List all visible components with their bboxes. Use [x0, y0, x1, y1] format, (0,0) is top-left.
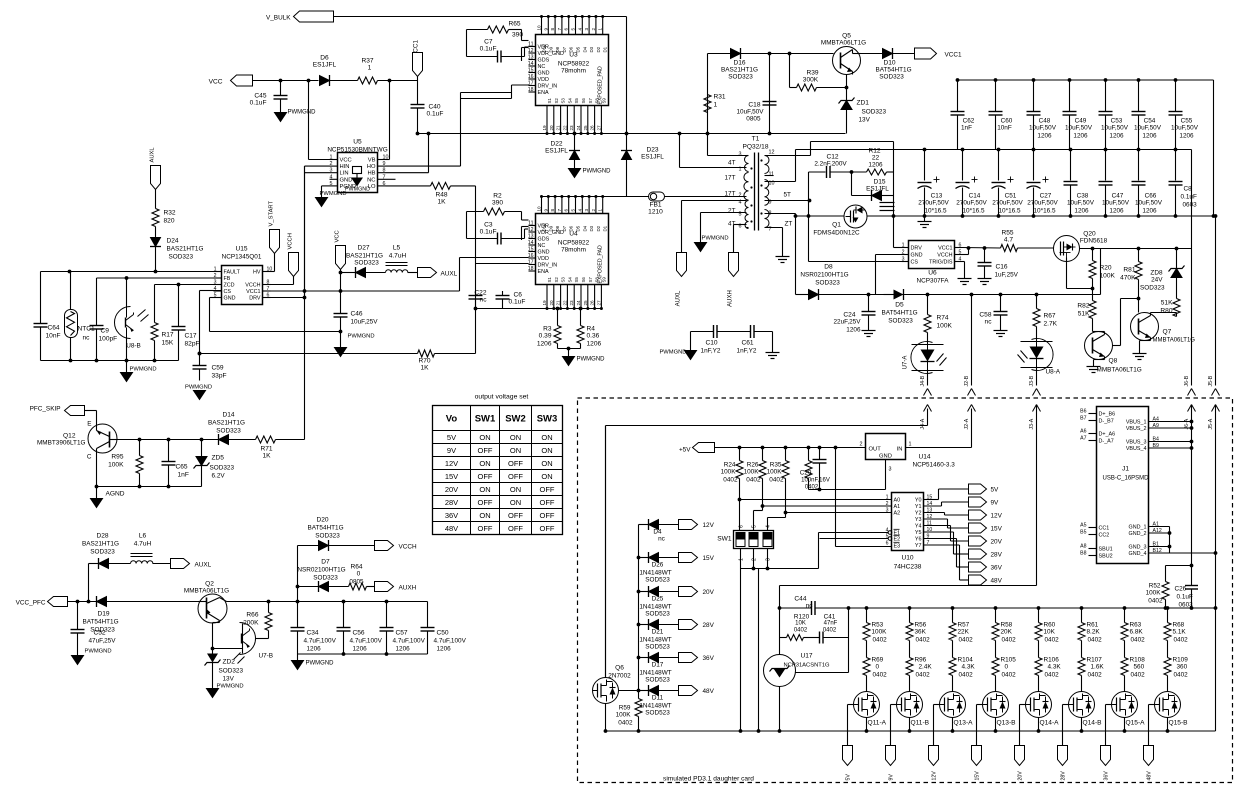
svg-text:0402: 0402 — [794, 628, 808, 634]
svg-text:20V: 20V — [703, 589, 715, 596]
svg-text:1N4148WT: 1N4148WT — [639, 637, 671, 644]
svg-text:Q7: Q7 — [1163, 329, 1172, 336]
svg-text:10*16.5: 10*16.5 — [924, 208, 946, 215]
svg-text:D+_B6: D+_B6 — [1099, 412, 1116, 418]
svg-text:12V: 12V — [932, 771, 938, 781]
svg-text:2: 2 — [591, 28, 596, 31]
svg-text:1206: 1206 — [437, 646, 452, 653]
svg-text:1nF: 1nF — [961, 125, 972, 132]
svg-text:GND: GND — [911, 253, 923, 259]
svg-text:Q11-B: Q11-B — [911, 720, 930, 727]
svg-text:J3-A: J3-A — [1029, 418, 1035, 429]
svg-text:CS: CS — [224, 289, 232, 295]
svg-text:D25: D25 — [652, 596, 664, 603]
svg-text:48V: 48V — [445, 524, 458, 533]
svg-text:nc: nc — [658, 536, 666, 543]
svg-text:100K: 100K — [616, 712, 632, 719]
svg-text:HO: HO — [367, 164, 376, 170]
svg-text:3: 3 — [766, 558, 772, 561]
svg-text:5.1K: 5.1K — [1173, 629, 1187, 636]
svg-text:VCC: VCC — [209, 79, 223, 86]
svg-text:0: 0 — [357, 571, 361, 578]
svg-text:D19: D19 — [97, 611, 109, 618]
svg-text:Y3: Y3 — [915, 517, 922, 523]
svg-text:13: 13 — [528, 55, 534, 61]
svg-text:VCCH: VCCH — [288, 233, 294, 249]
svg-text:ES1JFL: ES1JFL — [313, 62, 337, 69]
svg-text:SOD323: SOD323 — [815, 280, 840, 287]
svg-text:13V: 13V — [859, 117, 871, 124]
svg-text:1206: 1206 — [1074, 208, 1089, 215]
svg-text:D24: D24 — [167, 238, 179, 245]
svg-text:10: 10 — [537, 25, 542, 31]
svg-text:nc: nc — [806, 603, 814, 610]
svg-text:PWMGND: PWMGND — [288, 110, 317, 116]
svg-text:R4: R4 — [587, 326, 596, 333]
svg-text:C34: C34 — [307, 630, 319, 637]
svg-text:Q20: Q20 — [1083, 231, 1096, 238]
svg-text:A7: A7 — [1080, 436, 1086, 442]
svg-text:D17: D17 — [652, 662, 664, 669]
svg-text:VCC: VCC — [340, 158, 352, 164]
svg-text:1206: 1206 — [1109, 208, 1124, 215]
svg-text:21: 21 — [556, 300, 561, 306]
svg-text:22: 22 — [562, 300, 567, 306]
svg-text:0.1uF: 0.1uF — [1181, 194, 1197, 201]
svg-text:S4: S4 — [567, 277, 572, 283]
svg-text:1210: 1210 — [648, 209, 663, 216]
svg-text:L5: L5 — [393, 245, 401, 252]
svg-text:10: 10 — [537, 206, 542, 212]
svg-text:R109: R109 — [1173, 657, 1189, 664]
svg-text:100K: 100K — [108, 462, 124, 469]
svg-text:NC: NC — [367, 177, 375, 183]
svg-text:10*16.5: 10*16.5 — [998, 208, 1020, 215]
svg-text:D26: D26 — [652, 562, 664, 569]
svg-text:ENA: ENA — [538, 90, 549, 96]
svg-text:1: 1 — [902, 243, 905, 249]
svg-text:ES1JFL: ES1JFL — [641, 154, 664, 161]
svg-text:21: 21 — [556, 125, 561, 131]
svg-text:D9: D9 — [548, 225, 553, 231]
svg-text:R57: R57 — [958, 622, 970, 629]
svg-text:15V: 15V — [445, 472, 458, 481]
svg-text:7: 7 — [557, 28, 562, 31]
svg-text:11: 11 — [528, 42, 533, 48]
svg-text:R63: R63 — [1130, 622, 1142, 629]
svg-text:SOD323: SOD323 — [728, 74, 753, 81]
svg-text:MMBTA06LT1G: MMBTA06LT1G — [184, 588, 229, 595]
svg-text:SOD323: SOD323 — [210, 465, 235, 472]
svg-text:7: 7 — [267, 286, 270, 292]
svg-text:9: 9 — [383, 161, 386, 167]
svg-text:7: 7 — [557, 209, 562, 212]
svg-text:C59: C59 — [212, 365, 224, 372]
svg-text:SOD323: SOD323 — [216, 428, 241, 435]
svg-text:0.39: 0.39 — [539, 333, 552, 340]
svg-text:0.1uF: 0.1uF — [427, 111, 444, 118]
svg-text:NCP1345Q01: NCP1345Q01 — [222, 254, 262, 261]
svg-text:6: 6 — [959, 243, 962, 249]
svg-text:R95: R95 — [111, 454, 123, 461]
svg-text:4T: 4T — [728, 160, 736, 167]
svg-text:nc: nc — [83, 335, 91, 342]
svg-text:+5V: +5V — [679, 447, 691, 454]
svg-text:C57: C57 — [396, 630, 408, 637]
svg-text:23: 23 — [569, 125, 574, 131]
svg-text:BAT54HT1G: BAT54HT1G — [307, 525, 343, 532]
svg-text:1206: 1206 — [1037, 133, 1052, 140]
svg-text:R81: R81 — [1123, 267, 1135, 274]
svg-text:C40: C40 — [429, 104, 441, 111]
svg-text:28V: 28V — [991, 552, 1003, 559]
svg-text:NCP307FA: NCP307FA — [917, 278, 950, 285]
svg-text:AGND: AGND — [106, 491, 125, 498]
svg-text:E2: E2 — [894, 537, 901, 543]
svg-text:5V: 5V — [846, 774, 852, 781]
svg-text:D6: D6 — [569, 46, 574, 52]
svg-text:4.3K: 4.3K — [1048, 664, 1062, 671]
svg-text:4.7uF,100V: 4.7uF,100V — [393, 638, 426, 645]
svg-text:3: 3 — [902, 257, 905, 263]
svg-text:S2: S2 — [554, 277, 559, 283]
svg-text:5: 5 — [214, 293, 217, 299]
svg-text:BAS21HT1G: BAS21HT1G — [167, 246, 204, 253]
svg-text:270uF,50V: 270uF,50V — [956, 200, 987, 207]
svg-text:270uF,50V: 270uF,50V — [992, 200, 1023, 207]
svg-text:SOD323: SOD323 — [354, 260, 379, 267]
svg-text:S7: S7 — [588, 98, 593, 104]
svg-text:Y6: Y6 — [915, 537, 922, 543]
svg-text:A1: A1 — [894, 504, 901, 510]
svg-text:PWMGND: PWMGND — [320, 191, 347, 197]
svg-text:2.2nF,200V: 2.2nF,200V — [814, 161, 847, 168]
svg-text:D6: D6 — [320, 55, 329, 62]
svg-text:100K: 100K — [767, 469, 783, 476]
svg-text:R39: R39 — [806, 70, 818, 77]
svg-text:GND: GND — [538, 71, 550, 77]
svg-text:J2-B: J2-B — [964, 375, 970, 386]
svg-text:24: 24 — [576, 125, 581, 131]
svg-text:C44: C44 — [794, 596, 806, 603]
svg-text:NCP51460-3.3: NCP51460-3.3 — [913, 462, 956, 469]
svg-text:HIN: HIN — [340, 164, 350, 170]
svg-text:C13: C13 — [931, 193, 943, 200]
svg-text:C3: C3 — [484, 222, 493, 229]
svg-text:U17: U17 — [801, 653, 813, 660]
svg-text:15: 15 — [528, 68, 534, 74]
svg-text:VCCH: VCCH — [399, 544, 417, 551]
svg-text:0402: 0402 — [1174, 637, 1189, 644]
svg-text:S9: S9 — [601, 98, 606, 104]
svg-text:D3: D3 — [589, 225, 594, 231]
svg-text:1K: 1K — [437, 199, 446, 206]
svg-text:R59: R59 — [619, 705, 631, 712]
svg-text:0402: 0402 — [1131, 637, 1146, 644]
svg-text:22K: 22K — [958, 629, 970, 636]
svg-text:Vo: Vo — [446, 414, 458, 425]
svg-text:SOD323: SOD323 — [90, 549, 115, 556]
svg-text:Q13-B: Q13-B — [997, 720, 1017, 727]
svg-text:SBU1: SBU1 — [1099, 547, 1113, 553]
svg-text:1206: 1206 — [1179, 133, 1194, 140]
svg-text:T1: T1 — [752, 136, 760, 143]
svg-text:R31: R31 — [714, 94, 726, 101]
svg-text:17: 17 — [528, 260, 534, 266]
svg-text:FB1: FB1 — [649, 202, 661, 209]
svg-text:18: 18 — [528, 266, 534, 272]
svg-text:SOD323: SOD323 — [315, 533, 340, 540]
svg-text:1.6K: 1.6K — [1091, 664, 1105, 671]
svg-text:IN: IN — [897, 447, 903, 453]
svg-text:ON: ON — [479, 459, 490, 468]
svg-text:20K: 20K — [1001, 629, 1013, 636]
svg-text:0.1uF: 0.1uF — [480, 229, 497, 236]
svg-text:NCP58922: NCP58922 — [558, 61, 590, 68]
svg-text:24: 24 — [576, 300, 581, 306]
svg-text:4.7uH: 4.7uH — [134, 541, 152, 548]
svg-text:C46: C46 — [351, 311, 363, 318]
svg-text:Q8: Q8 — [1109, 358, 1118, 365]
svg-text:Q6: Q6 — [615, 665, 624, 672]
svg-text:Q12: Q12 — [63, 433, 76, 440]
svg-text:0.1uF: 0.1uF — [1177, 594, 1193, 601]
svg-text:0402: 0402 — [873, 672, 888, 679]
svg-text:C12: C12 — [826, 154, 838, 161]
svg-text:12: 12 — [528, 227, 534, 233]
svg-text:R71: R71 — [260, 446, 272, 453]
svg-text:0402: 0402 — [959, 637, 974, 644]
svg-text:S3: S3 — [561, 98, 566, 104]
svg-text:12V: 12V — [991, 513, 1003, 520]
svg-text:AUXL: AUXL — [676, 290, 682, 306]
svg-text:SOD523: SOD523 — [645, 611, 670, 618]
svg-text:D5: D5 — [576, 225, 581, 231]
svg-text:FDN5618: FDN5618 — [1080, 238, 1108, 245]
svg-text:14: 14 — [528, 240, 534, 246]
svg-text:270uF,50V: 270uF,50V — [918, 200, 949, 207]
svg-text:S5: S5 — [574, 277, 579, 283]
svg-text:BAT54HT1G: BAT54HT1G — [875, 67, 911, 74]
svg-text:10uF,50V: 10uF,50V — [1171, 125, 1199, 132]
svg-text:0805: 0805 — [746, 116, 761, 123]
svg-text:100pF: 100pF — [99, 336, 118, 343]
svg-text:J5-A: J5-A — [1208, 418, 1214, 429]
svg-text:C16: C16 — [996, 264, 1008, 271]
svg-text:U15: U15 — [235, 246, 247, 253]
svg-text:LIN: LIN — [340, 171, 349, 177]
svg-text:5V: 5V — [447, 433, 456, 442]
svg-text:R60: R60 — [1044, 622, 1056, 629]
svg-text:2: 2 — [902, 250, 905, 256]
svg-text:BAT54HT1G: BAT54HT1G — [881, 310, 917, 317]
svg-text:AUXL: AUXL — [150, 147, 156, 163]
svg-text:48V: 48V — [703, 688, 715, 695]
svg-text:D3: D3 — [589, 46, 594, 52]
svg-text:GND_1: GND_1 — [1129, 525, 1147, 531]
svg-text:10: 10 — [267, 267, 273, 273]
svg-text:DRV_IN: DRV_IN — [538, 263, 558, 269]
svg-text:5: 5 — [959, 250, 962, 256]
svg-text:10*16.5: 10*16.5 — [1033, 208, 1055, 215]
svg-text:E3: E3 — [894, 544, 901, 550]
svg-text:C18: C18 — [748, 102, 760, 109]
svg-text:C24: C24 — [843, 312, 855, 319]
svg-text:OFF: OFF — [540, 511, 555, 520]
svg-text:0402: 0402 — [1002, 672, 1017, 679]
svg-text:R2: R2 — [493, 193, 502, 200]
svg-text:9V: 9V — [447, 446, 456, 455]
svg-text:U14: U14 — [919, 454, 931, 461]
svg-text:S5: S5 — [574, 98, 579, 104]
svg-text:25: 25 — [583, 125, 588, 131]
svg-text:ON: ON — [541, 433, 552, 442]
svg-text:4.3K: 4.3K — [962, 664, 976, 671]
svg-text:1: 1 — [330, 155, 333, 161]
svg-text:NSR02100HT1G: NSR02100HT1G — [800, 272, 848, 279]
svg-text:SOD523: SOD523 — [645, 677, 670, 684]
svg-text:10nF: 10nF — [46, 333, 61, 340]
svg-text:VBUS_1: VBUS_1 — [1126, 420, 1147, 426]
svg-text:C52: C52 — [94, 630, 106, 637]
svg-text:U10: U10 — [901, 555, 913, 562]
svg-text:A0: A0 — [894, 498, 901, 504]
svg-text:0402: 0402 — [1148, 598, 1163, 605]
svg-text:4: 4 — [766, 525, 772, 528]
svg-text:48V: 48V — [1147, 771, 1153, 781]
svg-text:1nF: 1nF — [178, 472, 189, 479]
svg-text:simulated PD3.1 daughter card: simulated PD3.1 daughter card — [663, 776, 754, 783]
svg-text:0402: 0402 — [823, 628, 837, 634]
svg-text:51K: 51K — [1078, 311, 1090, 318]
svg-text:C47: C47 — [1112, 193, 1124, 200]
svg-text:OFF: OFF — [540, 498, 555, 507]
svg-text:CS: CS — [911, 260, 919, 266]
svg-text:V_START: V_START — [269, 200, 275, 226]
svg-text:U7-B: U7-B — [259, 653, 274, 660]
svg-text:D10: D10 — [542, 44, 547, 53]
svg-text:10uF,50V: 10uF,50V — [1065, 125, 1093, 132]
svg-text:28V: 28V — [1061, 771, 1067, 781]
svg-text:C14: C14 — [969, 193, 981, 200]
svg-text:0.36: 0.36 — [587, 333, 600, 340]
svg-text:D7: D7 — [562, 46, 567, 52]
svg-text:D28: D28 — [96, 533, 108, 540]
svg-text:9: 9 — [543, 28, 548, 31]
svg-text:B5: B5 — [1080, 530, 1086, 536]
svg-text:A5: A5 — [1080, 523, 1086, 529]
svg-text:4: 4 — [214, 286, 217, 292]
svg-text:VCC1: VCC1 — [938, 246, 952, 252]
svg-text:4.7uF,100V: 4.7uF,100V — [350, 638, 383, 645]
svg-text:16: 16 — [528, 74, 534, 80]
svg-text:100nF,16V: 100nF,16V — [801, 478, 830, 484]
svg-text:MMBTA06LT1G: MMBTA06LT1G — [1097, 367, 1142, 374]
svg-text:2: 2 — [214, 273, 217, 279]
svg-text:9V: 9V — [889, 774, 895, 781]
svg-text:SW1: SW1 — [475, 414, 496, 425]
svg-text:D-_A7: D-_A7 — [1099, 439, 1114, 445]
svg-text:SOD523: SOD523 — [645, 577, 670, 584]
svg-text:6: 6 — [886, 541, 889, 547]
svg-text:AUXL: AUXL — [195, 562, 212, 569]
svg-text:24V: 24V — [1151, 277, 1163, 284]
svg-text:C29: C29 — [800, 470, 812, 477]
svg-text:FB: FB — [224, 276, 231, 282]
svg-text:15K: 15K — [162, 340, 174, 347]
svg-text:USB-C_16PSMD: USB-C_16PSMD — [1102, 476, 1149, 482]
svg-text:ON: ON — [510, 446, 521, 455]
svg-text:A2: A2 — [894, 511, 901, 517]
svg-text:SOD323: SOD323 — [1140, 285, 1165, 292]
svg-text:AUXH: AUXH — [399, 585, 417, 592]
svg-text:3: 3 — [584, 28, 589, 31]
svg-text:7: 7 — [383, 174, 386, 180]
svg-text:S9: S9 — [601, 277, 606, 283]
svg-text:C48: C48 — [1039, 118, 1051, 125]
svg-text:ON: ON — [510, 485, 521, 494]
svg-text:3: 3 — [330, 168, 333, 174]
svg-text:S6: S6 — [581, 98, 586, 104]
svg-text:C26: C26 — [1175, 586, 1187, 593]
svg-text:4: 4 — [577, 209, 582, 212]
svg-text:C: C — [87, 454, 92, 461]
svg-text:PFC_SKIP: PFC_SKIP — [30, 406, 61, 413]
svg-text:Y5: Y5 — [915, 530, 922, 536]
svg-text:1: 1 — [739, 558, 745, 561]
svg-text:R64: R64 — [350, 564, 362, 571]
svg-text:SOD323: SOD323 — [888, 318, 913, 325]
svg-text:1206: 1206 — [1073, 133, 1088, 140]
svg-text:2: 2 — [752, 558, 758, 561]
svg-text:GND: GND — [224, 296, 236, 302]
svg-text:C6: C6 — [514, 292, 523, 299]
svg-text:ES1JFL: ES1JFL — [866, 186, 889, 193]
svg-text:0.1uF: 0.1uF — [509, 299, 526, 306]
svg-text:16: 16 — [528, 253, 534, 259]
svg-text:12: 12 — [769, 150, 775, 156]
svg-text:R68: R68 — [1173, 622, 1185, 629]
svg-text:VCCH: VCCH — [937, 253, 952, 259]
svg-text:J2-A: J2-A — [964, 418, 970, 429]
svg-text:C64: C64 — [48, 325, 60, 332]
svg-text:VDD: VDD — [538, 256, 549, 262]
svg-text:13V: 13V — [223, 676, 235, 683]
svg-text:0603: 0603 — [1183, 202, 1198, 209]
svg-text:100K: 100K — [744, 469, 760, 476]
svg-text:D1: D1 — [603, 225, 608, 231]
svg-text:GND: GND — [340, 177, 353, 183]
svg-text:0402: 0402 — [1088, 672, 1103, 679]
svg-text:R52: R52 — [1149, 583, 1161, 590]
svg-text:1206: 1206 — [868, 162, 883, 169]
svg-text:19: 19 — [542, 125, 547, 131]
svg-text:0402: 0402 — [916, 672, 931, 679]
svg-text:NCP58922: NCP58922 — [558, 240, 590, 247]
svg-text:R55: R55 — [1001, 230, 1013, 237]
svg-text:PWMGND: PWMGND — [577, 357, 606, 363]
svg-text:9V: 9V — [991, 500, 1000, 507]
svg-text:MMBT3906LT1G: MMBT3906LT1G — [37, 440, 86, 447]
svg-text:C38: C38 — [1077, 193, 1089, 200]
svg-text:12V: 12V — [445, 459, 458, 468]
svg-text:1206: 1206 — [587, 341, 602, 348]
svg-text:15: 15 — [528, 247, 534, 253]
svg-text:Q1: Q1 — [832, 222, 841, 229]
svg-text:1N4148WT: 1N4148WT — [639, 703, 671, 710]
svg-text:R105: R105 — [1001, 657, 1017, 664]
svg-text:B8: B8 — [1080, 551, 1086, 557]
